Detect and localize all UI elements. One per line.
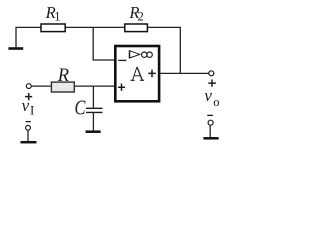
- op-amp triangle: [129, 50, 131, 58]
- node junction wire down to inverting input: [93, 27, 115, 60]
- svg-text:o: o: [213, 95, 219, 109]
- op-amp plus (non-inverting): [118, 84, 125, 91]
- input terminal circle (vI bottom): [26, 125, 31, 130]
- op-amp gain label A: [131, 67, 145, 80]
- svg-text:2: 2: [138, 10, 144, 24]
- resistor R (gray): [51, 82, 74, 92]
- capacitor C plates: [86, 108, 103, 112]
- op-amp plus (output side): [148, 70, 156, 78]
- resistor R2: [125, 24, 148, 32]
- minus mark (vo): [207, 114, 213, 116]
- svg-text:R: R: [57, 66, 69, 86]
- ground (under C): [86, 130, 101, 133]
- output wire: [160, 72, 208, 74]
- ground (vI bar): [21, 141, 37, 144]
- op-amp infinity: [142, 52, 147, 57]
- minus mark (vI): [26, 121, 31, 123]
- plus mark (vI): [25, 93, 32, 100]
- svg-text:C: C: [75, 97, 86, 120]
- svg-text:1: 1: [54, 9, 60, 23]
- output terminal circle (vo top): [209, 71, 214, 76]
- ground stem top-left: [15, 27, 17, 47]
- capacitor lower stem: [92, 113, 94, 131]
- plus mark (vo): [208, 80, 216, 87]
- ground stem (vo): [209, 125, 211, 137]
- resistor R1: [41, 24, 65, 32]
- wire R to op-amp non-inverting input: [75, 85, 115, 87]
- wire vI to R: [32, 85, 51, 87]
- wire top-left from ground to R1: [16, 26, 41, 28]
- wire R2 to feedback corner and down to output: [148, 27, 181, 73]
- ground stem (vI): [27, 130, 29, 141]
- ground (top-left bar): [8, 47, 23, 50]
- ground (vo bar): [203, 137, 218, 140]
- capacitor C branch wire: [92, 86, 94, 107]
- output terminal circle (vo bottom): [208, 120, 213, 125]
- wire R1 to R2: [66, 26, 125, 28]
- op-amp minus sign: [118, 59, 126, 61]
- svg-text:v: v: [22, 96, 30, 115]
- input terminal circle (vI top): [26, 84, 31, 89]
- op-amp U1 box: [115, 46, 159, 101]
- svg-text:v: v: [204, 86, 212, 105]
- svg-text:I: I: [30, 102, 34, 117]
